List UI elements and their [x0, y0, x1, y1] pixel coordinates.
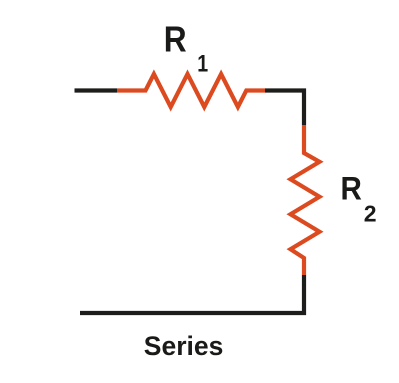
svg-text:R: R — [164, 19, 187, 59]
svg-text:R: R — [341, 170, 362, 207]
svg-text:2: 2 — [364, 201, 377, 227]
wire top-right corner (black) — [265, 91, 304, 126]
wire top-left lead (black) — [75, 88, 118, 92]
wire bottom (black) — [80, 275, 304, 313]
svg-text:Series: Series — [144, 331, 224, 361]
svg-text:1: 1 — [197, 49, 208, 77]
resistor R1 (orange zigzag with leads) — [117, 74, 265, 107]
resistor R2 (orange zigzag with leads) — [291, 125, 320, 275]
